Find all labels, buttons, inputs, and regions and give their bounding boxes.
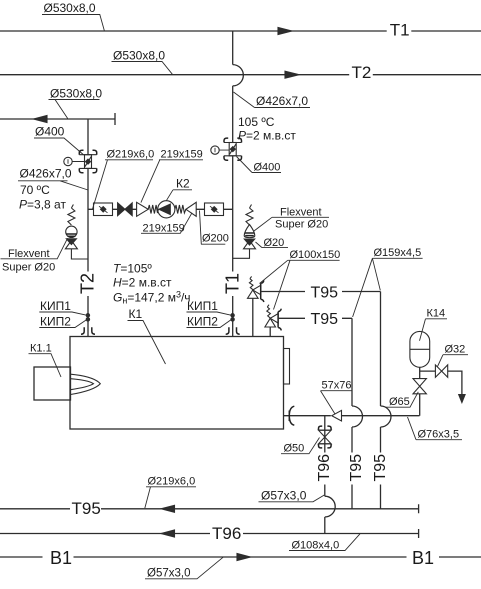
flex insert left bbox=[148, 205, 158, 214]
svg-text:В1: В1 bbox=[50, 548, 72, 568]
damper box left bbox=[94, 203, 113, 216]
svg-text:Ø65: Ø65 bbox=[389, 396, 410, 408]
svg-text:Ø57х3,0: Ø57х3,0 bbox=[147, 568, 190, 580]
crossing bump right bbox=[381, 406, 392, 427]
crossing bump riser over T2 bbox=[233, 65, 244, 86]
wire riser T2 left bbox=[87, 119, 89, 337]
svg-text:Ø530х8,0: Ø530х8,0 bbox=[113, 49, 165, 63]
svg-text:Т95: Т95 bbox=[348, 454, 365, 482]
wire T95 left vertical bbox=[351, 318, 353, 509]
svg-text:Т2: Т2 bbox=[352, 63, 372, 82]
wire B1 line bbox=[0, 556, 481, 558]
svg-text:P=2 м.в.ст: P=2 м.в.ст bbox=[238, 129, 296, 143]
svg-text:Ø50: Ø50 bbox=[284, 443, 305, 455]
svg-text:КИП2: КИП2 bbox=[40, 315, 71, 329]
svg-text:Ø400: Ø400 bbox=[35, 125, 65, 139]
svg-text:105 ºС: 105 ºС bbox=[238, 115, 275, 129]
safety valve SV2 bbox=[265, 305, 281, 337]
wire pump line bbox=[88, 208, 233, 210]
svg-text:Т95: Т95 bbox=[311, 285, 339, 302]
boiler side pocket bbox=[284, 349, 290, 385]
flange curls riser left bbox=[81, 327, 95, 334]
wire T95 bottom line bbox=[0, 504, 419, 513]
node T95 rotated label b bbox=[372, 454, 389, 482]
valve U-right on riser T1 bbox=[224, 138, 242, 160]
crossing bump left bbox=[352, 406, 363, 427]
svg-text:Ø20: Ø20 bbox=[264, 237, 285, 249]
svg-text:Ø76х3,5: Ø76х3,5 bbox=[418, 429, 460, 441]
svg-text:Ø108х4,0: Ø108х4,0 bbox=[292, 540, 340, 552]
svg-text:Ø57х3,0: Ø57х3,0 bbox=[261, 489, 307, 503]
svg-text:Т95: Т95 bbox=[72, 499, 101, 518]
damper box right bbox=[205, 203, 224, 216]
valve U-left on riser T2 bbox=[79, 150, 96, 172]
svg-text:Т96: Т96 bbox=[212, 524, 241, 543]
node T96 rotated label bbox=[316, 454, 333, 482]
node T1 riser label bbox=[222, 273, 242, 294]
svg-text:P=3,8 ат: P=3,8 ат bbox=[19, 198, 66, 212]
arrow on B1 bbox=[237, 554, 251, 561]
svg-text:219х159: 219х159 bbox=[143, 223, 185, 235]
valve Ø32 bbox=[435, 365, 441, 377]
valve drain Ø50 bbox=[319, 426, 332, 448]
node sensor dots right bbox=[231, 314, 234, 317]
svg-text:Flexvent: Flexvent bbox=[280, 207, 322, 219]
safety valve SV1 bbox=[248, 276, 264, 336]
flexvent branch right bbox=[233, 249, 250, 258]
wire T95 lower line bbox=[278, 317, 352, 319]
svg-text:Т2: Т2 bbox=[78, 273, 98, 294]
flexvent branch left bbox=[71, 249, 88, 259]
wire boiler outlet bbox=[284, 415, 420, 417]
svg-text:Ø426х7,0: Ø426х7,0 bbox=[256, 94, 308, 108]
node T2 riser label bbox=[78, 273, 98, 294]
wire tank to line bbox=[419, 367, 421, 415]
svg-text:Т96: Т96 bbox=[316, 454, 333, 482]
svg-text:КИП1: КИП1 bbox=[40, 299, 71, 313]
node T95 rotated label a bbox=[348, 454, 365, 482]
svg-text:T=105º: T=105º bbox=[113, 262, 152, 276]
crossing bump T96 over T95 bbox=[325, 496, 335, 517]
wire T2 main line bbox=[0, 74, 481, 76]
wire drain T96 bbox=[324, 416, 326, 534]
reducer triangle left bbox=[137, 202, 149, 216]
tank K14 bbox=[410, 331, 430, 367]
arrow on T1 bbox=[278, 28, 292, 35]
reducer 57x76 bbox=[332, 410, 342, 421]
svg-text:В1: В1 bbox=[412, 548, 434, 568]
arrow drain down bbox=[459, 395, 465, 403]
pump K2 bbox=[158, 201, 175, 218]
svg-text:219х159: 219х159 bbox=[161, 149, 203, 161]
wire tank tee right bbox=[420, 371, 462, 395]
reducer triangle right bbox=[186, 202, 196, 216]
svg-text:К1: К1 bbox=[129, 307, 143, 321]
burner box K1.1 bbox=[34, 367, 71, 400]
svg-text:Т95: Т95 bbox=[311, 311, 339, 328]
svg-text:Т95: Т95 bbox=[372, 454, 389, 482]
svg-text:Ø400: Ø400 bbox=[254, 162, 281, 174]
wire branch line Ø530 bbox=[0, 113, 115, 125]
svg-text:57х76: 57х76 bbox=[322, 379, 352, 391]
svg-text:Ø530х8,0: Ø530х8,0 bbox=[50, 87, 102, 101]
svg-text:КИП1: КИП1 bbox=[187, 299, 218, 313]
svg-text:Ø530х8,0: Ø530х8,0 bbox=[44, 1, 96, 15]
wire T96 bottom line bbox=[0, 529, 419, 538]
svg-text:Ø32: Ø32 bbox=[445, 344, 466, 356]
wire riser T1 right bbox=[232, 31, 234, 337]
svg-text:К1.1: К1.1 bbox=[30, 343, 52, 355]
wire T1 main line bbox=[0, 30, 481, 32]
svg-text:Ø100х150: Ø100х150 bbox=[290, 249, 341, 261]
flange curls riser right bbox=[226, 327, 240, 334]
flexvent left symbol bbox=[65, 205, 77, 249]
svg-text:К2: К2 bbox=[176, 177, 190, 191]
svg-text:КИП2: КИП2 bbox=[187, 315, 218, 329]
flame bbox=[71, 374, 101, 394]
arrow on T96 bottom bbox=[161, 530, 175, 537]
svg-text:Ø159х4,5: Ø159х4,5 bbox=[374, 247, 422, 259]
svg-text:Super Ø20: Super Ø20 bbox=[2, 261, 55, 273]
svg-text:Т1: Т1 bbox=[390, 21, 410, 40]
svg-text:Т1: Т1 bbox=[222, 273, 242, 294]
arrow on branch bbox=[34, 116, 48, 123]
instrument circle right bbox=[211, 146, 219, 154]
svg-text:H=2 м.в.ст: H=2 м.в.ст bbox=[113, 276, 172, 290]
boiler K1 bbox=[70, 337, 284, 430]
svg-text:Ø426х7,0: Ø426х7,0 bbox=[20, 167, 72, 181]
wire T95 right vertical bbox=[380, 292, 382, 509]
svg-text:Ø219х6,0: Ø219х6,0 bbox=[107, 149, 155, 161]
svg-text:К14: К14 bbox=[427, 308, 446, 320]
instrument circle left bbox=[64, 157, 72, 165]
svg-text:Ø200: Ø200 bbox=[202, 233, 229, 245]
flex insert right bbox=[175, 205, 186, 214]
svg-text:Flexvent: Flexvent bbox=[8, 248, 50, 260]
butterfly valve filled bbox=[118, 203, 125, 216]
flange boiler outlet bbox=[289, 406, 294, 425]
node sensor dots left bbox=[86, 314, 89, 317]
valve Ø65 bbox=[413, 379, 426, 387]
wire T95 upper line bbox=[261, 291, 381, 293]
arrow on T95 bottom bbox=[161, 505, 175, 512]
svg-text:Ø219х6,0: Ø219х6,0 bbox=[148, 476, 196, 488]
svg-text:70 ºС: 70 ºС bbox=[20, 183, 50, 197]
svg-text:Super Ø20: Super Ø20 bbox=[275, 219, 328, 231]
flexvent right symbol bbox=[244, 205, 256, 249]
arrow on T2 bbox=[285, 71, 299, 78]
